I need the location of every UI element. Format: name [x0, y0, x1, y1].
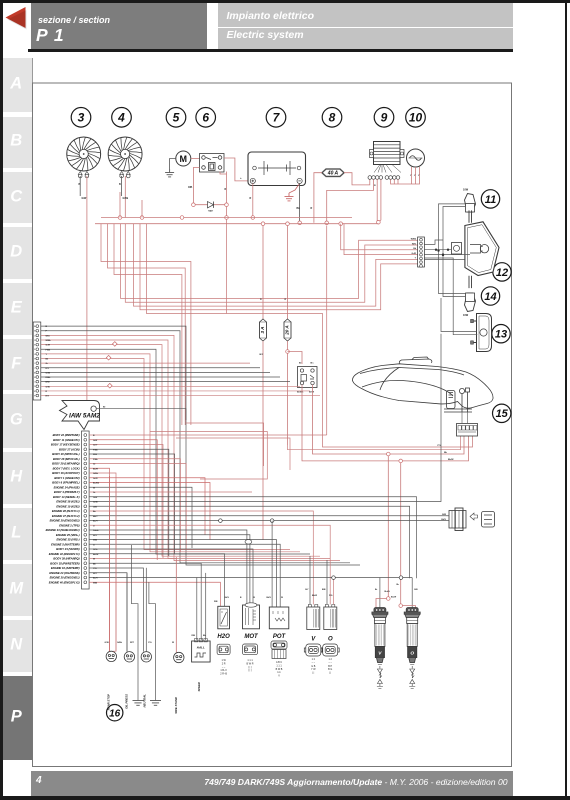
svg-text:W: W — [172, 642, 174, 644]
svg-text:3: 3 — [78, 111, 85, 125]
svg-text:Gr/B: Gr/B — [93, 501, 98, 504]
svg-text:ENGINE 16 (AIRTEMP): ENGINE 16 (AIRTEMP) — [51, 566, 80, 570]
svg-text:BODY 38 (HIFANRQ): BODY 38 (HIFANRQ) — [53, 557, 79, 561]
page left black strip — [0, 0, 3, 800]
svg-text:G/W: G/W — [46, 386, 50, 388]
headlight 12 — [465, 222, 499, 276]
ground wire 1 — [132, 545, 144, 705]
svg-text:R: R — [250, 197, 252, 200]
ECU connector pin list — [46, 431, 90, 589]
label 6 — [196, 108, 216, 128]
wire relay to battery plus — [224, 158, 248, 181]
rectifier regulator 9 — [370, 142, 405, 173]
svg-text:W/B: W/B — [93, 582, 98, 584]
svg-text:BODY 14 (SERIAL K): BODY 14 (SERIAL K) — [53, 495, 80, 499]
POT connector — [271, 641, 287, 678]
svg-text:Bu/G: Bu/G — [385, 591, 391, 593]
svg-text:BODY 28 (MPXCAN-): BODY 28 (MPXCAN-) — [53, 457, 80, 461]
header underline — [28, 49, 513, 52]
label 12 — [493, 263, 511, 281]
svg-text:Bn/Bk: Bn/Bk — [297, 392, 304, 394]
svg-text:W: W — [281, 597, 283, 599]
wire feed to fuse 3A — [260, 226, 263, 320]
svg-text:Gr/R: Gr/R — [411, 252, 416, 255]
ECU IAW 5AM2 — [60, 401, 101, 430]
svg-text:R/Y: R/Y — [46, 368, 50, 370]
svg-text:ENGINE 2 (TPS): ENGINE 2 (TPS) — [59, 523, 79, 527]
wire tail light — [425, 258, 478, 335]
ignition coil O — [404, 608, 420, 689]
page right black line — [565, 0, 567, 800]
svg-text:OIL PRESS: OIL PRESS — [125, 694, 129, 709]
svg-text:ENGINE 20 (ENGGND1): ENGINE 20 (ENGGND1) — [50, 576, 80, 580]
fuse 40A (8) — [322, 169, 344, 177]
wire connector labels — [411, 239, 417, 260]
svg-text:Bk/V: Bk/V — [225, 597, 230, 599]
svg-text:BODY 24 (VHSPD): BODY 24 (VHSPD) — [56, 547, 79, 551]
starter relay 6 — [200, 154, 225, 173]
svg-text:10: 10 — [409, 111, 423, 125]
svg-text:B/Y: B/Y — [260, 354, 264, 356]
svg-text:B/B: B/B — [322, 589, 326, 591]
svg-text:REAR STOP: REAR STOP — [107, 694, 111, 710]
battery 7 — [248, 152, 306, 186]
svg-text:6: 6 — [202, 111, 209, 125]
ignition coil V — [372, 608, 388, 689]
svg-text:Br: Br — [397, 584, 400, 586]
svg-text:IAW 5AM2: IAW 5AM2 — [69, 413, 100, 420]
wire injector leads — [305, 556, 334, 605]
svg-text:Bu/Bk: Bu/Bk — [93, 483, 100, 485]
svg-text:W/Bk: W/Bk — [46, 340, 52, 342]
svg-text:Bu/Y: Bu/Y — [93, 521, 98, 523]
wire main bus 2 — [95, 222, 378, 226]
svg-text:16: 16 — [109, 708, 121, 719]
rear stop switch — [105, 476, 123, 710]
wire regulator reds down — [325, 179, 381, 224]
wire diode right down to bus — [225, 207, 229, 220]
svg-text:ENGINE 25 (VRS+): ENGINE 25 (VRS+) — [56, 533, 80, 537]
wire signal feeds — [437, 204, 465, 297]
svg-text:5: 5 — [173, 111, 180, 125]
wire dashboard pin leads — [41, 326, 360, 565]
svg-text:R/B: R/B — [192, 635, 196, 637]
svg-text:ENGINE 34 (SHIELDGND1): ENGINE 34 (SHIELDGND1) — [46, 528, 80, 532]
wire ECU row leads — [89, 334, 449, 653]
fan motor 3 — [67, 137, 101, 178]
alternator 10 — [407, 149, 425, 167]
fuse 20A — [284, 319, 291, 341]
fuel tank 15 — [352, 357, 493, 412]
svg-text:13: 13 — [495, 329, 507, 341]
label 13 — [492, 325, 510, 343]
svg-text:Bk/V: Bk/V — [267, 597, 272, 599]
wire motor to relay — [191, 158, 200, 160]
svg-text:W/Y: W/Y — [93, 535, 98, 537]
wire battery plus down — [250, 184, 255, 220]
wire fuse 3A down — [260, 341, 264, 540]
svg-text:ENGINE 10 (KZ62): ENGINE 10 (KZ62) — [56, 504, 79, 508]
svg-text:Gr/R: Gr/R — [46, 344, 51, 347]
svg-text:W: W — [93, 487, 95, 489]
svg-text:ENGINE 24 (PHASE): ENGINE 24 (PHASE) — [54, 485, 80, 489]
svg-text:W/Bk: W/Bk — [411, 239, 417, 241]
svg-text:O/B: O/B — [188, 186, 193, 189]
svg-text:O/W: O/W — [93, 497, 97, 499]
svg-text:14: 14 — [484, 291, 496, 303]
svg-text:B: B — [119, 183, 121, 186]
svg-text:ENGINE 35 (VRS-): ENGINE 35 (VRS-) — [57, 538, 80, 542]
header section box — [31, 3, 207, 49]
wire coil bus red — [376, 597, 416, 608]
svg-text:W/G: W/G — [93, 454, 98, 456]
svg-text:G/W: G/W — [82, 197, 88, 200]
label 8 — [322, 108, 342, 128]
label 11 — [481, 190, 499, 208]
svg-text:W/G: W/G — [46, 335, 51, 337]
hall speed sensor — [192, 635, 211, 691]
wire fan3 leads — [79, 176, 88, 401]
svg-text:O/B: O/B — [93, 506, 97, 508]
svg-text:M: M — [180, 154, 188, 164]
svg-text:G/W: G/W — [105, 642, 109, 644]
ground battery minus — [285, 184, 300, 201]
svg-text:Bk/Y: Bk/Y — [93, 516, 98, 518]
svg-text:20 A: 20 A — [285, 325, 290, 336]
svg-text:BODY 16 (ACDPOUT): BODY 16 (ACDPOUT) — [52, 471, 79, 475]
injector V — [304, 605, 322, 675]
svg-text:W: W — [253, 597, 255, 599]
wire main bus 1 — [101, 216, 352, 220]
fan motor 4 — [108, 137, 142, 178]
svg-text:Br: Br — [375, 589, 377, 591]
wire diagnostic labels — [441, 514, 446, 521]
svg-text:BODY 1 (GNHEAT2): BODY 1 (GNHEAT2) — [54, 476, 79, 480]
svg-text:11: 11 — [485, 194, 496, 206]
wire band junctions — [219, 519, 274, 607]
svg-text:+: + — [240, 176, 242, 180]
svg-text:10W: 10W — [463, 189, 469, 192]
label 9 — [374, 108, 394, 128]
svg-text:SPEED: SPEED — [197, 682, 201, 691]
svg-text:Cable: Cable — [93, 530, 100, 532]
neutral switch — [141, 568, 152, 708]
svg-text:H2O: H2O — [217, 634, 230, 640]
svg-text:O: O — [328, 637, 333, 643]
svg-text:40 A: 40 A — [327, 171, 339, 177]
svg-text:G/Bk: G/Bk — [123, 197, 129, 200]
label 14 — [481, 287, 499, 305]
svg-text:ENGINE 28 (INJCYL1): ENGINE 28 (INJCYL1) — [52, 509, 80, 513]
page bottom black strip — [0, 796, 570, 800]
svg-text:Gr/R: Gr/R — [93, 477, 98, 480]
wire battery minus down — [297, 184, 302, 225]
wire pump to connector — [462, 412, 468, 424]
svg-text:B/W: B/W — [46, 382, 50, 384]
svg-text:POT: POT — [273, 634, 287, 640]
svg-text:BODY 35 (PWRSTEER): BODY 35 (PWRSTEER) — [50, 561, 79, 565]
label 16 — [107, 705, 123, 721]
signal stalks — [469, 210, 472, 288]
svg-text:O/Gr: O/Gr — [93, 548, 98, 551]
svg-text:R/Y: R/Y — [46, 396, 50, 398]
wire connector to headlight — [425, 240, 471, 259]
side stand switch — [172, 557, 184, 714]
oil pressure switch — [124, 573, 134, 709]
footer bar — [31, 771, 513, 796]
wire red corner feeds — [150, 423, 290, 479]
instrument panel connector — [418, 237, 425, 267]
svg-text:Gr/B: Gr/B — [46, 371, 51, 374]
red arrow marker — [3, 3, 31, 50]
wire feed to fuse 20A — [285, 226, 288, 320]
svg-text:G/Bk: G/Bk — [93, 473, 99, 475]
inline connector diamonds — [106, 342, 117, 388]
header title box — [218, 3, 513, 49]
svg-text:BODY 7 (KEY, LOCK): BODY 7 (KEY, LOCK) — [53, 466, 80, 470]
svg-text:Bu/V: Bu/V — [93, 578, 98, 580]
wire ECU relay feed — [96, 407, 186, 420]
svg-text:ENGINE 23 (OILPRESS): ENGINE 23 (OILPRESS) — [49, 571, 79, 575]
wire coil feed verticals — [385, 452, 403, 605]
fuse 3A — [260, 319, 267, 341]
injector O — [321, 605, 339, 675]
svg-text:R: R — [311, 207, 313, 210]
svg-text:P/G: P/G — [329, 595, 333, 597]
wire relay left leg — [188, 168, 200, 203]
label 5 — [166, 108, 186, 128]
svg-text:HALL: HALL — [197, 646, 205, 650]
MOT connector — [243, 644, 258, 672]
svg-text:B: B — [79, 183, 81, 186]
svg-text:Bu/R: Bu/R — [93, 468, 98, 470]
wire relay2 down legs — [302, 385, 469, 461]
tank pump connector — [457, 424, 478, 437]
svg-text:BODY 17 (KEYSENSE): BODY 17 (KEYSENSE) — [51, 443, 80, 447]
inline connector oval on MOT pair — [245, 540, 252, 544]
svg-text:W: W — [93, 559, 95, 561]
svg-text:G/B: G/B — [414, 589, 418, 591]
svg-text:R/Bk: R/Bk — [46, 377, 52, 379]
svg-text:Bk/W: Bk/W — [312, 595, 317, 597]
wire distribution nest — [101, 219, 473, 447]
svg-text:G/Bk: G/Bk — [117, 642, 123, 644]
page top black strip — [0, 0, 570, 3]
svg-text:Gr: Gr — [93, 463, 96, 466]
H2O connector — [217, 644, 230, 675]
wire fan4 leads — [119, 176, 129, 218]
front turn signal 11 — [463, 189, 476, 213]
svg-text:MOT: MOT — [244, 634, 259, 640]
svg-text:ENGINE 32 (ENGSPLY1): ENGINE 32 (ENGSPLY1) — [49, 552, 80, 556]
wire fuse40 right — [344, 173, 370, 185]
wire bus drops left — [120, 192, 142, 218]
ground for motor 5 — [165, 159, 176, 177]
engine temp sensor MOT — [240, 597, 260, 640]
diode — [192, 202, 229, 213]
ground wire 2 — [149, 582, 161, 705]
fan relay — [297, 363, 317, 394]
svg-text:BODY 20 (MPXCAN+): BODY 20 (MPXCAN+) — [52, 452, 79, 456]
dashboard connector column — [33, 322, 41, 400]
svg-text:BODY 27 (ACIN): BODY 27 (ACIN) — [59, 447, 80, 451]
svg-text:Y/G: Y/G — [93, 568, 97, 570]
svg-text:Br: Br — [103, 407, 106, 409]
starter motor 5 — [176, 151, 191, 166]
svg-text:2 R–B: 2 R–B — [220, 673, 227, 676]
svg-text:BODY 4 (PWRSPLY): BODY 4 (PWRSPLY) — [54, 490, 80, 494]
svg-text:12: 12 — [496, 267, 508, 279]
svg-text:W/B: W/B — [93, 540, 98, 542]
regulator output terminals — [368, 176, 400, 180]
svg-text:R/B: R/B — [214, 601, 218, 603]
svg-text:ENGINE 38 (KZ61): ENGINE 38 (KZ61) — [56, 500, 79, 504]
svg-text:G/W: G/W — [93, 440, 97, 442]
svg-text:Bn/W: Bn/W — [93, 554, 98, 556]
svg-text:O: O — [410, 650, 414, 656]
label 7 — [266, 108, 286, 128]
svg-text:J: J — [34, 368, 35, 370]
svg-text:Bk/W: Bk/W — [448, 459, 454, 461]
svg-text:BODY 11 (GNHEAT1): BODY 11 (GNHEAT1) — [53, 438, 80, 442]
svg-text:ENGINE 40 (ENGSPLY2): ENGINE 40 (ENGSPLY2) — [49, 580, 80, 584]
svg-text:BODY 29 (LWFANRQ): BODY 29 (LWFANRQ) — [52, 462, 80, 466]
label 15 — [493, 404, 511, 422]
svg-text:Y/G: Y/G — [148, 642, 152, 644]
wire fuse 20A long drop — [288, 436, 461, 450]
svg-text:10W: 10W — [463, 314, 469, 317]
label 3 — [71, 108, 91, 128]
svg-text:ENGINE 5 (WATTEMP): ENGINE 5 (WATTEMP) — [51, 542, 79, 546]
wire fuse 20A to relay — [286, 341, 302, 445]
svg-text:BODY 22 (MINITANK): BODY 22 (MINITANK) — [53, 433, 80, 437]
svg-text:8: 8 — [329, 111, 336, 125]
svg-text:ENGINE 29 (ENGGND2): ENGINE 29 (ENGGND2) — [50, 519, 80, 523]
position lamp — [452, 243, 462, 255]
wire alternator phases — [410, 167, 420, 184]
sidebar tabs — [3, 58, 33, 113]
svg-text:W/G: W/G — [412, 243, 417, 245]
svg-text:9: 9 — [381, 111, 388, 125]
rear turn signal 14 — [463, 293, 476, 317]
svg-text:15: 15 — [496, 408, 509, 420]
svg-text:Br: Br — [299, 363, 302, 365]
water temp sensor H2O — [214, 597, 230, 640]
svg-text:Bu/W: Bu/W — [391, 597, 396, 599]
label 10 — [406, 108, 426, 128]
svg-text:R: R — [225, 188, 227, 191]
svg-text:| | |: | | | — [248, 669, 252, 672]
svg-text:Gr: Gr — [93, 491, 96, 494]
throttle potentiometer POT — [267, 597, 289, 640]
wire regulator to alternator phases — [391, 179, 412, 184]
wire fuse40 left — [311, 173, 323, 223]
diagram border frame — [33, 83, 512, 767]
svg-text:Gr/Y: Gr/Y — [93, 444, 98, 447]
svg-text:Gr: Gr — [46, 362, 49, 365]
svg-text:3 A: 3 A — [260, 327, 265, 334]
svg-text:SIDE STAND: SIDE STAND — [174, 697, 178, 714]
svg-text:BODY 6 (FPUMPREL): BODY 6 (FPUMPREL) — [52, 481, 79, 485]
svg-text:70A07: 70A07 — [208, 210, 213, 213]
svg-text:4: 4 — [117, 111, 125, 125]
diagnostic connector pair — [449, 508, 495, 531]
label 4 — [112, 108, 132, 128]
tail light 13 — [471, 314, 492, 352]
wire coil bus dark — [332, 576, 418, 608]
svg-text:ENGINE 37 (INJCYL2): ENGINE 37 (INJCYL2) — [52, 514, 80, 518]
wire relay right leg — [220, 172, 227, 203]
